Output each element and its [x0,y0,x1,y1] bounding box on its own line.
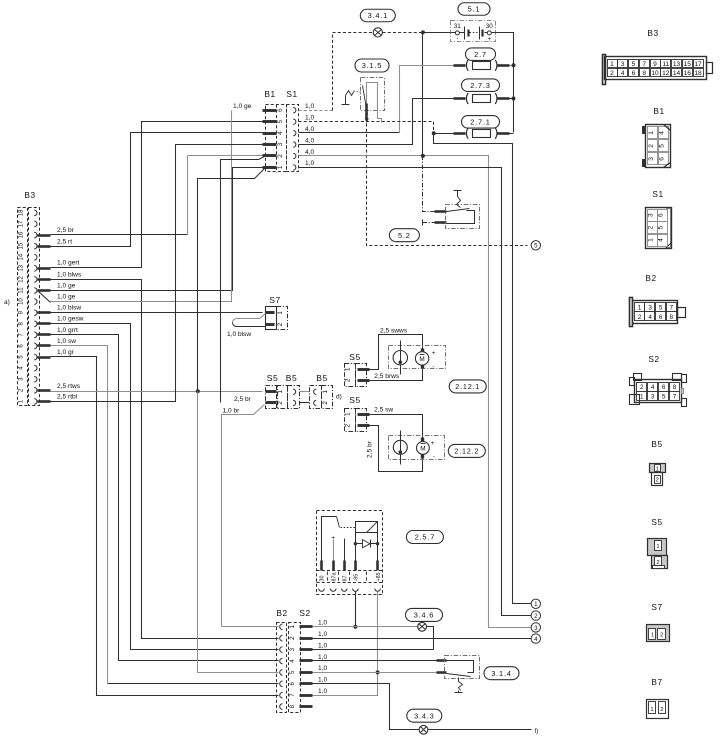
wire 1.0 ge (B3.11 to S1.6) [51,111,232,302]
svg-text:1: 1 [534,601,538,608]
svg-text:1: 1 [277,165,284,169]
wire 2.5 brws (S5.2 to motor -) [370,369,423,381]
wire S1.1 to terminal 2 [299,168,532,616]
svg-text:1: 1 [345,367,352,371]
svg-text:1: 1 [651,633,654,639]
svg-text:2,5 rtbl: 2,5 rtbl [57,393,78,400]
svg-text:1: 1 [289,625,296,629]
svg-text:S7: S7 [651,602,662,612]
svg-text:-: - [456,35,458,42]
svg-text:1,0: 1,0 [305,103,314,110]
svg-text:6: 6 [659,314,663,321]
wire 1.0 sw (B3.6 to B2.6) [51,346,279,684]
label 5.2 [389,229,419,242]
svg-text:7: 7 [673,394,677,401]
svg-text:4,0: 4,0 [305,126,314,133]
svg-text:2.7: 2.7 [474,50,487,59]
wire 2.5 rtws (B3.2 to S5.1) [51,391,263,393]
connector B5 loose body [310,386,333,409]
wire 2.5 br (S5.2 to motor -) [370,426,423,472]
wire S2.5 to switch 3.1.4 pin2 [313,672,437,674]
relay 2.5.7 [317,511,384,595]
svg-text:11: 11 [18,287,24,294]
svg-text:1: 1 [656,544,659,550]
svg-text:2,5 br: 2,5 br [367,440,374,458]
connector view S7 [647,625,670,642]
connector view S1 [646,208,672,249]
connector S5 body (lower motor) [345,409,370,432]
label 2.12.2 [448,444,485,457]
junction dot relay +85 on S2.5 row [376,670,380,674]
wire 2.5 br (B3.16 to S1.2) [51,156,263,235]
svg-text:4: 4 [621,70,625,77]
svg-text:5.1: 5.1 [468,5,481,14]
svg-text:B3: B3 [647,28,658,38]
wire battery 30 to bus [497,33,514,133]
svg-text:+: + [331,535,335,542]
label 2.7.1 [462,116,500,129]
wire fuse 2.7.1 left lead [434,133,454,135]
svg-text:B2: B2 [276,608,287,618]
svg-text:2: 2 [534,613,538,620]
connector view B2 [630,298,686,327]
svg-text:30: 30 [320,576,326,582]
svg-text:5: 5 [534,243,538,250]
svg-text:5: 5 [277,119,284,123]
terminal circle 5 [531,241,540,250]
svg-text:1: 1 [638,304,642,311]
wire fuse 2.7 feed (S1.4) [299,66,454,133]
svg-text:4: 4 [658,238,665,242]
svg-text:3: 3 [651,394,655,401]
terminal circle 3 [531,623,540,632]
connector B1 body [263,105,287,173]
wire lamp 3.4.1 to battery junction (dashed) [383,32,423,34]
wire battery 31 bus (S1.2 to terminal 3) [299,156,532,628]
terminal circle 1 [531,599,540,608]
svg-text:7: 7 [670,304,674,311]
label wire sizes S1 [305,103,314,167]
svg-text:3: 3 [534,625,538,632]
svg-text:2: 2 [322,401,329,405]
connector S5/B5 pair body [266,386,310,409]
svg-text:8: 8 [289,704,296,708]
svg-text:2: 2 [638,314,642,321]
svg-text:1: 1 [345,412,352,416]
svg-text:B2: B2 [645,273,656,283]
svg-text:5: 5 [662,394,666,401]
svg-text:B5: B5 [651,439,662,449]
wire relay -85 down to S2.1 row [355,592,357,627]
wire S2.6 to lamp 3.4.3 [313,684,419,730]
svg-text:3: 3 [277,142,284,146]
wire 1.0 gr (B3.5 to B2.7) [51,357,279,696]
label 2.12.1 [449,380,486,393]
svg-text:5: 5 [658,225,665,229]
svg-text:+: + [431,440,435,447]
svg-text:12: 12 [18,275,24,282]
svg-text:2: 2 [660,707,663,713]
svg-text:1: 1 [610,61,614,68]
connector view B3 [603,55,713,85]
fuse 2.7 [454,60,510,71]
svg-text:2.7.3: 2.7.3 [470,81,490,90]
svg-text:1: 1 [277,390,284,394]
svg-text:7: 7 [289,693,296,697]
svg-text:30: 30 [486,23,494,30]
svg-text:15: 15 [684,61,692,68]
svg-text:17: 17 [18,220,24,227]
label 2.7.3 [462,79,500,92]
svg-text:S5: S5 [651,517,662,527]
svg-text:18: 18 [18,209,24,216]
svg-text:B3: B3 [24,190,35,200]
wire S1.6 to lamp 3.4.1 (dashed) [299,33,374,111]
svg-text:14: 14 [18,253,24,260]
svg-text:S2: S2 [299,608,310,618]
svg-text:1: 1 [650,707,653,713]
wire 1.0 ge (B3.11 to S1.1) [51,168,263,291]
svg-text:3: 3 [289,647,296,651]
svg-text:2: 2 [345,378,352,382]
svg-text:1,0 ge: 1,0 ge [57,293,76,300]
wire battery 31 lead [423,33,451,156]
label 5.1 [458,3,490,16]
svg-text:B5: B5 [286,373,297,383]
wire fuse 2.7.1 to bus corner [510,133,514,135]
svg-text:5: 5 [632,61,636,68]
svg-text:3.4.3: 3.4.3 [414,711,434,720]
svg-text:2: 2 [277,401,284,405]
connector B2 body [277,623,287,713]
svg-text:5: 5 [659,304,663,311]
svg-text:14: 14 [673,70,681,77]
svg-text:31: 31 [454,23,462,30]
switch 5.2 pin stubs [423,212,447,226]
wire 3.1.5 to terminal 5 (dashed) [367,124,528,246]
wire lamp 3.4.3 to note f) [429,729,532,731]
svg-text:B7: B7 [651,677,662,687]
svg-text:1,0 blsw: 1,0 blsw [57,305,81,312]
svg-text:3: 3 [621,61,625,68]
svg-text:a): a) [4,299,10,306]
label 3.1.4 [484,667,519,680]
wire 1.0 blws (B3.12 to B2.2) [51,280,279,639]
svg-text:4: 4 [277,131,284,135]
connector B3 pin stubs [38,236,51,402]
svg-text:2,5 brws: 2,5 brws [374,373,400,380]
wire 1.0 blsw loop S7 pin1 to pin2 [233,314,266,327]
wire fuse 2.7.3 feed (S1.3) [299,99,454,145]
svg-text:4,0: 4,0 [305,137,314,144]
svg-text:4: 4 [651,384,655,391]
junction dot fuse 2.7 bus [512,63,516,67]
wire 2.5 rtbl (B3.1 to S1.3) [51,145,263,402]
svg-text:-: - [433,363,435,370]
wire lamp 3.4.6 to S2.3 [313,627,434,650]
svg-text:B1: B1 [264,89,275,99]
connector S7 body [266,307,288,330]
wire 2.5 swws (S5.1 to motor +) [370,335,423,370]
svg-text:2: 2 [648,225,655,229]
svg-text:7: 7 [642,61,646,68]
svg-text:S7: S7 [269,295,280,305]
label wire sizes S2 [318,620,327,695]
svg-text:2.12.1: 2.12.1 [455,382,480,391]
svg-text:+: + [487,36,491,43]
svg-text:11: 11 [662,61,669,68]
fuse 2.7.3 [454,93,510,104]
svg-text:8: 8 [642,70,646,77]
svg-text:10: 10 [651,70,659,77]
junction dot bus at battery lead [421,154,425,158]
svg-text:13: 13 [18,264,24,271]
junction dot fuse 2.7.1 [432,131,436,135]
svg-text:2: 2 [656,478,659,484]
svg-text:1,0: 1,0 [318,620,327,627]
svg-text:S1: S1 [652,189,663,199]
junction dot battery minus [421,30,425,34]
svg-text:5: 5 [289,670,296,674]
connector B3 body [18,208,40,406]
switch 3.1.4 pin stubs [437,661,447,673]
svg-text:4: 4 [289,659,296,663]
svg-text:2: 2 [640,384,644,391]
svg-text:2: 2 [289,636,296,640]
svg-text:1,0 gr: 1,0 gr [57,349,75,356]
wire double-crimp diagonal at B3 pin 11 [38,291,51,303]
label 2.7 [466,48,496,61]
svg-text:10: 10 [18,298,24,305]
wire 1.0 br (S5.2 to B2.1) [222,405,279,627]
svg-text:1,0 br: 1,0 br [223,408,241,415]
svg-text:1,0 blsw: 1,0 blsw [227,331,251,338]
wire dash-dot to switch 5.2 pin1 [423,156,435,212]
wire S2.1 to lamp 3.4.6 [313,626,418,628]
wire S2.2 to terminal 4 [313,638,532,640]
junction dot rtws / S1.1 tap [196,389,200,393]
actuator 2.12.1 [389,341,446,375]
svg-text:1: 1 [277,311,284,315]
label 3.4.1 [360,9,395,22]
svg-text:S5: S5 [267,373,278,383]
connector view B5 [650,464,666,486]
svg-text:1,0: 1,0 [305,160,314,167]
svg-text:2: 2 [610,70,614,77]
svg-text:4: 4 [659,131,666,135]
svg-text:1: 1 [656,466,659,472]
svg-text:1,0 sw: 1,0 sw [57,338,76,345]
svg-text:S2: S2 [648,354,659,364]
svg-text:3.4.6: 3.4.6 [414,611,434,620]
switch 5.2 [446,191,480,229]
svg-text:2,5 br: 2,5 br [57,227,75,234]
svg-text:1,0 ge: 1,0 ge [233,103,252,110]
wire fuse 2.7.3 to bus [510,98,514,100]
connector S1 body [287,105,299,172]
svg-text:1: 1 [322,390,329,394]
svg-text:3: 3 [648,157,655,161]
actuator 2.12.2 [389,431,445,465]
wire tap to S1.1 and B2.5 [198,169,279,673]
wire 1.0 blsw (B3.9 to S7.1) [51,312,263,314]
svg-text:2.12.2: 2.12.2 [454,446,479,455]
svg-text:4: 4 [648,314,652,321]
svg-text:6: 6 [658,213,665,217]
wire 2.5 sw (S5.1 to motor +) [370,415,423,439]
svg-text:1,0: 1,0 [305,114,314,121]
wire 1.0 gert (B3.13 to S1.5) [51,122,263,268]
svg-text:6: 6 [662,384,666,391]
switch 3.1.5 [342,78,385,124]
svg-text:8: 8 [670,314,674,321]
svg-text:2,5 rt: 2,5 rt [57,238,72,245]
connector view S5 [648,539,668,569]
svg-text:8: 8 [673,384,677,391]
battery 5.1 [451,21,497,43]
wire ground bus (S1.2 branch to S5.2) [221,157,265,403]
connector view S2 [630,374,687,407]
svg-text:S1: S1 [286,89,297,99]
svg-text:2: 2 [660,633,663,639]
switch 3.1.4 [445,656,480,693]
fuse 2.7.1 [454,128,510,139]
svg-text:4: 4 [534,636,538,643]
svg-text:6: 6 [277,108,284,112]
svg-text:3: 3 [648,304,652,311]
svg-text:6: 6 [659,157,666,161]
svg-text:1: 1 [648,238,655,242]
svg-text:87: 87 [343,576,349,582]
svg-text:5.2: 5.2 [398,231,411,240]
svg-text:16: 16 [684,70,692,77]
svg-text:17: 17 [694,61,702,68]
svg-text:18: 18 [694,70,702,77]
label 2.5.7 [406,531,443,544]
svg-text:3.4.1: 3.4.1 [368,11,388,20]
wire 2.5 rt (B3.15 to S1.4) [51,133,263,247]
svg-text:2,5 sw: 2,5 sw [374,406,393,413]
svg-text:1,0: 1,0 [318,677,327,684]
svg-text:1,0: 1,0 [318,688,327,695]
svg-text:1,0 blws: 1,0 blws [57,271,82,278]
lamp 3.4.6 [418,622,427,631]
svg-text:2: 2 [277,322,284,326]
svg-text:13: 13 [673,61,681,68]
wire fuse 2.7 to bus [510,65,514,67]
svg-text:1,0: 1,0 [318,665,327,672]
svg-text:f): f) [535,728,539,735]
svg-text:B5: B5 [316,373,327,383]
svg-text:2.7.1: 2.7.1 [470,117,490,126]
svg-text:S5: S5 [349,395,360,405]
svg-text:2.5.7: 2.5.7 [415,533,435,542]
svg-text:12: 12 [662,70,670,77]
svg-text:2: 2 [345,424,352,428]
svg-text:3.1.4: 3.1.4 [491,669,511,678]
svg-text:5: 5 [659,144,666,148]
svg-text:1: 1 [648,131,655,135]
label 3.4.6 [406,608,443,621]
svg-text:87a: 87a [331,573,337,582]
svg-text:1,0 gert: 1,0 gert [57,260,80,267]
wire S1.5 dashed to fuse 2.7.1 [299,122,434,134]
svg-text:1,0 ge: 1,0 ge [57,282,76,289]
svg-text:1: 1 [640,394,644,401]
wire 1.0 grrt (B3.7 to B2.4) [51,335,279,661]
svg-text:S5: S5 [349,352,360,362]
terminal circle 2 [531,611,540,620]
label 3.4.3 [407,709,442,722]
svg-text:2,5 br: 2,5 br [234,396,252,403]
svg-text:6: 6 [289,682,296,686]
svg-text:M: M [419,356,424,363]
label 3.1.5 [355,59,389,72]
svg-text:9: 9 [653,61,657,68]
svg-text:2,5 swws: 2,5 swws [380,328,408,335]
svg-text:+: + [432,350,436,357]
svg-text:1,0 gesw: 1,0 gesw [57,316,84,323]
junction dot fuse 2.7.3 bus [512,97,516,101]
connector view B1 [643,125,671,168]
svg-text:1,0: 1,0 [318,642,327,649]
svg-text:2: 2 [656,560,659,566]
svg-text:16: 16 [18,231,24,238]
terminal circle 4 [531,634,540,643]
svg-text:d): d) [336,394,342,401]
svg-text:B1: B1 [653,106,664,116]
wire S2.4 to switch 3.1.4 pin1 [313,660,437,662]
svg-text:3.1.5: 3.1.5 [362,61,382,70]
svg-text:6: 6 [632,70,636,77]
svg-text:+85: +85 [376,572,382,581]
wire relay +85 down to S2.7 row [313,592,378,696]
lamp 3.4.1 [373,28,382,37]
connector S2 body [289,623,313,713]
wire 2.7.1 junction down to terminal 1 [434,134,532,604]
connector view B7 [647,700,669,719]
svg-text:1,0: 1,0 [318,631,327,638]
connector S5 body (upper motor) [345,364,370,387]
svg-text:4,0: 4,0 [305,149,314,156]
svg-text:-: - [433,453,435,460]
svg-text:2: 2 [277,154,284,158]
svg-text:3: 3 [648,213,655,217]
svg-text:1,0: 1,0 [318,654,327,661]
svg-text:15: 15 [18,242,24,249]
lamp 3.4.3 [419,725,428,734]
svg-text:-85: -85 [354,574,360,582]
svg-text:2: 2 [648,144,655,148]
svg-text:2,5 rtws: 2,5 rtws [57,383,81,390]
svg-text:1,0 grrt: 1,0 grrt [57,327,78,334]
wire 1.0 gesw (B3.8 to B2.3) [51,324,279,650]
svg-text:M: M [420,446,425,453]
junction dot relay -85 on S2.1 row [353,625,357,629]
